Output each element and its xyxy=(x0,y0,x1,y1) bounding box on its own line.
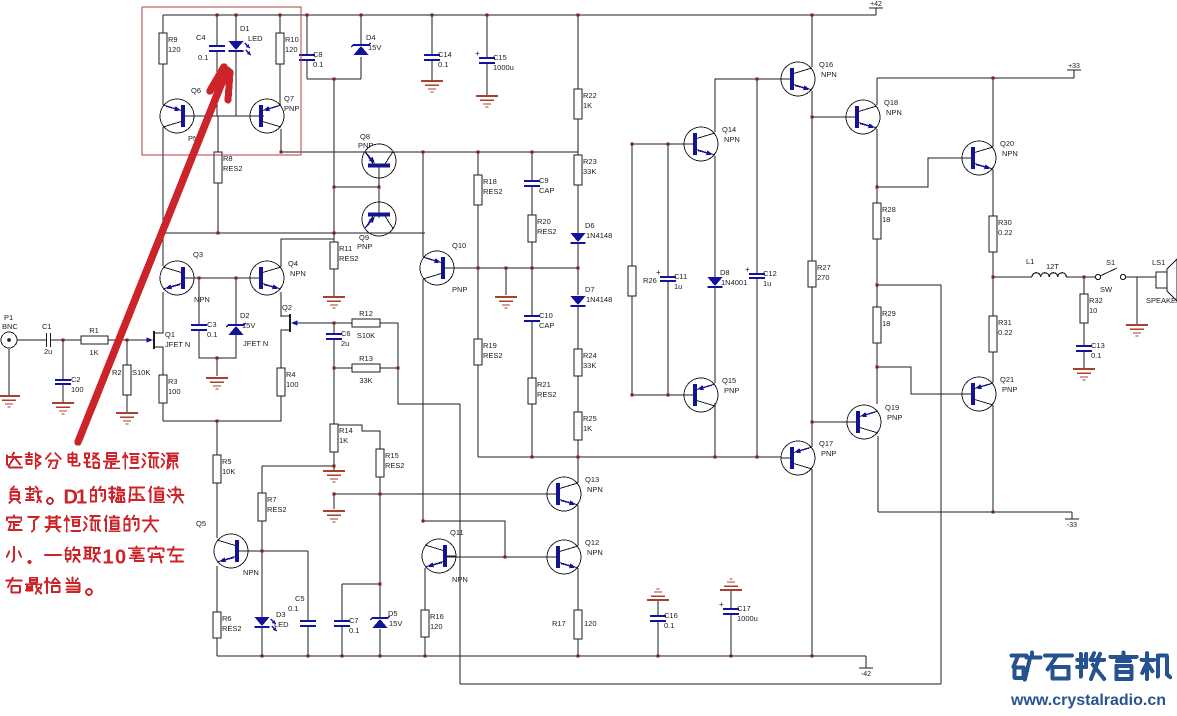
svg-text:NPN: NPN xyxy=(821,70,837,79)
svg-text:2u: 2u xyxy=(44,347,52,356)
wire Q16 emitter column xyxy=(811,91,813,261)
transistor Q17 xyxy=(781,439,836,475)
svg-text:PNP: PNP xyxy=(724,386,739,395)
svg-text:RES2: RES2 xyxy=(483,351,503,360)
wire Q10 emitter up xyxy=(422,152,424,257)
wire C6 top xyxy=(333,323,335,334)
ground R2 xyxy=(116,413,138,424)
svg-text:R22: R22 xyxy=(583,91,597,100)
wire D4 bottom to bus xyxy=(360,57,362,79)
svg-text:C10: C10 xyxy=(539,311,553,320)
svg-text:R5: R5 xyxy=(222,457,232,466)
svg-text:LED: LED xyxy=(274,620,289,629)
junction at (334,323) xyxy=(333,322,336,325)
ground P1 xyxy=(0,396,20,407)
svg-text:D7: D7 xyxy=(585,285,595,294)
wire Q4 collector to R11 xyxy=(281,239,334,267)
wire gnd stem node C3D2 xyxy=(216,358,218,376)
svg-text:-33: -33 xyxy=(1067,522,1077,529)
power -42 xyxy=(859,668,873,678)
wire C16 bottom xyxy=(657,621,659,656)
junction at (812,422) xyxy=(811,421,814,424)
zener D5 xyxy=(370,609,402,628)
ground Q13 base line xyxy=(323,511,345,522)
resistor R23 xyxy=(574,155,597,185)
resistor R5 xyxy=(213,455,235,483)
wire R5 to Q5 collector xyxy=(216,483,218,538)
wire Q16 collector xyxy=(811,15,813,67)
transistor Q18 xyxy=(846,98,902,134)
junction at (262,551) xyxy=(261,550,264,553)
junction at (334,466) xyxy=(333,465,336,468)
wire R16 top to Q11 xyxy=(424,568,426,610)
speaker LS1 xyxy=(1156,272,1167,288)
svg-text:0.22: 0.22 xyxy=(998,228,1013,237)
svg-text:R31: R31 xyxy=(998,318,1012,327)
wire R22-R23 join xyxy=(577,119,579,155)
wire Q2 source to R4 xyxy=(280,331,282,368)
wire y152 to C9/R22 xyxy=(478,151,578,153)
capacitor C3 xyxy=(191,320,217,339)
resistor R21 xyxy=(528,378,557,404)
junction at (308,656) xyxy=(307,655,310,658)
wire Q20 collector xyxy=(992,78,994,147)
svg-text:Q20: Q20 xyxy=(1000,139,1014,148)
svg-text:R23: R23 xyxy=(583,157,597,166)
junction at (236,278) xyxy=(235,277,238,280)
svg-text:15V: 15V xyxy=(389,619,402,628)
wire R3 bottom xyxy=(162,403,164,421)
jfet Q2 xyxy=(281,303,302,337)
capacitor C4 xyxy=(209,46,225,51)
connector P1 BNC xyxy=(1,332,17,348)
capacitor C16 xyxy=(650,611,678,630)
wire R30 bottom to node xyxy=(992,252,994,277)
wire R6 bottom xyxy=(216,638,218,656)
junction at (281,152) xyxy=(280,151,283,154)
svg-text:R18: R18 xyxy=(483,177,497,186)
wire Q18 base line xyxy=(812,116,846,118)
svg-text:100: 100 xyxy=(71,385,84,394)
svg-text:15V: 15V xyxy=(242,321,255,330)
svg-text:-42: -42 xyxy=(861,671,871,678)
resistor R27 xyxy=(808,261,831,287)
wire C2 gnd stem xyxy=(62,384,64,402)
junction at (993,512) xyxy=(992,511,995,514)
svg-text:R30: R30 xyxy=(998,218,1012,227)
svg-text:S10K: S10K xyxy=(357,331,375,340)
svg-text:R4: R4 xyxy=(286,370,296,379)
resistor R28 xyxy=(873,203,896,239)
junction at (236,15) xyxy=(235,14,238,17)
svg-text:Q21: Q21 xyxy=(1000,375,1014,384)
wire output node line xyxy=(993,276,1032,278)
transistor Q10 xyxy=(420,241,467,294)
wire R18 top xyxy=(477,152,479,175)
wire R15 top link xyxy=(334,425,380,449)
svg-text:0.1: 0.1 xyxy=(349,626,359,635)
svg-text:0: 0 xyxy=(115,547,126,569)
wire R14 bottom stem xyxy=(333,452,335,466)
svg-text:1: 1 xyxy=(76,487,87,509)
wire Q15 base line xyxy=(632,394,687,396)
wire Q21 emitter xyxy=(992,405,994,512)
svg-text:PNP: PNP xyxy=(452,285,467,294)
svg-text:1N4001: 1N4001 xyxy=(721,278,747,287)
junction at (812,656) xyxy=(811,655,814,658)
wire Q12 emitter to R17 xyxy=(577,568,579,610)
junction at (334,233) xyxy=(333,232,336,235)
resistor R11 xyxy=(330,242,359,269)
capacitor C5 xyxy=(300,621,316,626)
svg-text:R15: R15 xyxy=(385,451,399,460)
svg-text:LS1: LS1 xyxy=(1152,258,1165,267)
svg-text:R2: R2 xyxy=(112,368,122,377)
wire C2 tap xyxy=(62,340,64,380)
svg-text:100: 100 xyxy=(286,380,299,389)
svg-text:R32: R32 xyxy=(1089,296,1103,305)
svg-text:R6: R6 xyxy=(222,614,232,623)
wire feedback right column xyxy=(940,285,942,684)
wire D3 top xyxy=(261,551,263,617)
svg-text:R13: R13 xyxy=(359,354,373,363)
junction at (668,144) xyxy=(667,143,670,146)
svg-text:Q10: Q10 xyxy=(452,241,466,250)
wire Q17 emitter down xyxy=(811,469,813,656)
resistor R2 xyxy=(123,365,131,395)
resistor R31 xyxy=(989,316,1013,352)
wire y152 right of Q8 xyxy=(394,151,478,153)
red arrow annotation xyxy=(78,70,227,442)
capacitor C13 xyxy=(1076,341,1105,360)
wire C11 bottom xyxy=(667,281,669,395)
svg-text:P1: P1 xyxy=(4,313,13,322)
svg-text:R9: R9 xyxy=(168,35,178,44)
wire C6 to R13 node xyxy=(333,339,335,368)
resistor R12 xyxy=(352,309,380,340)
junction at (307,15) xyxy=(306,14,309,17)
resistor R13 xyxy=(352,354,380,385)
svg-text:C13: C13 xyxy=(1091,341,1105,350)
diode D7 xyxy=(570,285,612,306)
power -33 xyxy=(1065,519,1079,529)
wire R7 bottom xyxy=(261,521,263,551)
wire Q18 collector xyxy=(876,78,878,105)
svg-text:NPN: NPN xyxy=(194,295,210,304)
wire R9 column xyxy=(162,15,164,33)
svg-text:270: 270 xyxy=(817,273,830,282)
wire R22 to rail xyxy=(577,15,579,89)
wire Q18 emitter xyxy=(876,129,878,203)
svg-text:C11: C11 xyxy=(674,272,687,281)
svg-text:1K: 1K xyxy=(583,424,592,433)
junction at (63,340) xyxy=(62,339,65,342)
junction at (423,152) xyxy=(422,151,425,154)
resistor R14 xyxy=(330,424,353,452)
transistor Q7 xyxy=(250,94,299,133)
svg-text:C2: C2 xyxy=(71,375,81,384)
wire feedback bottom xyxy=(460,683,941,685)
wire Q11 collector staple xyxy=(423,521,505,557)
svg-text:R25: R25 xyxy=(583,414,597,423)
junction at (715,457) xyxy=(714,456,717,459)
wire Q20 base staircase xyxy=(877,158,962,187)
svg-text:C6: C6 xyxy=(341,329,351,338)
svg-text:Q9: Q9 xyxy=(359,233,369,242)
wire R7 top link xyxy=(262,465,334,467)
wire +33 rail xyxy=(877,77,1074,79)
svg-text:NPN: NPN xyxy=(290,269,306,278)
transistor Q21 xyxy=(962,375,1017,411)
wire input line xyxy=(17,339,46,341)
svg-text:R26: R26 xyxy=(643,276,657,285)
wire C8 top xyxy=(306,15,308,55)
wire C7 leads xyxy=(341,584,343,621)
svg-text:R28: R28 xyxy=(882,205,896,214)
svg-text:+: + xyxy=(745,265,750,274)
wire R9 to Q6 xyxy=(162,64,164,105)
wire C3 top xyxy=(198,278,200,325)
svg-text:33K: 33K xyxy=(583,167,596,176)
svg-text:D4: D4 xyxy=(366,33,376,42)
svg-text:PNP: PNP xyxy=(358,141,373,150)
svg-text:D3: D3 xyxy=(276,610,286,619)
junction at (632,395) xyxy=(631,394,634,397)
svg-text:S1: S1 xyxy=(1106,258,1115,267)
wire C3/D2 bottom bus xyxy=(199,330,236,358)
svg-text:0.22: 0.22 xyxy=(998,328,1013,337)
wire Q17 collector xyxy=(811,422,813,447)
wire Q5 base to R7/D3 xyxy=(240,550,308,552)
wire R20 bottom xyxy=(531,242,533,268)
svg-text:Q14: Q14 xyxy=(722,125,736,134)
svg-text:C4: C4 xyxy=(196,33,206,42)
ground C14 xyxy=(431,60,433,81)
junction at (993,277) xyxy=(992,276,995,279)
LED D1 xyxy=(228,24,263,55)
wire switch to speaker xyxy=(1126,276,1156,278)
transistor Q3 xyxy=(160,250,210,304)
junction at (578,656) xyxy=(577,655,580,658)
svg-text:1N4148: 1N4148 xyxy=(586,231,612,240)
resistor R18 xyxy=(474,175,503,205)
resistor R24 xyxy=(574,349,597,376)
wire R18 bottom xyxy=(477,205,479,268)
svg-text:R29: R29 xyxy=(882,309,896,318)
junction at (757,79) xyxy=(756,78,759,81)
svg-text:10K: 10K xyxy=(222,467,235,476)
junction at (506,268) xyxy=(505,267,508,270)
svg-text:1u: 1u xyxy=(674,282,682,291)
transistor Q13 xyxy=(547,475,603,511)
wire C12 top xyxy=(756,79,758,274)
wire R19 bottom corner xyxy=(477,365,479,457)
svg-text:0.1: 0.1 xyxy=(207,330,217,339)
wire +33 drop xyxy=(1073,70,1075,78)
junction at (877,187) xyxy=(876,186,879,189)
svg-text:12T: 12T xyxy=(1046,262,1059,271)
wire R21 bottom xyxy=(531,404,533,457)
svg-text:1: 1 xyxy=(103,547,114,569)
svg-text:1K: 1K xyxy=(89,348,98,357)
junction at (877,285) xyxy=(876,284,879,287)
svg-text:R24: R24 xyxy=(583,351,597,360)
junction at (757,457) xyxy=(756,456,759,459)
resistor R29 xyxy=(873,307,896,343)
wire speaker gnd xyxy=(1136,277,1138,324)
svg-text:RES2: RES2 xyxy=(537,227,557,236)
wire D5 top xyxy=(379,584,381,617)
wire Q3 collector up xyxy=(162,233,164,266)
wire Q9 right diag to Q10 xyxy=(393,233,423,252)
svg-text:C16: C16 xyxy=(664,611,678,620)
junction at (380,494) xyxy=(379,493,382,496)
svg-text:10: 10 xyxy=(1089,306,1097,315)
watermark logo text xyxy=(1012,653,1171,680)
svg-text:C12: C12 xyxy=(763,269,777,278)
svg-text:R17: R17 xyxy=(552,619,566,628)
wire R5 tap xyxy=(216,421,218,455)
wire R10 top xyxy=(279,15,281,33)
junction at (812,15) xyxy=(811,14,814,17)
svg-text:Q13: Q13 xyxy=(585,475,599,484)
capacitor C1 xyxy=(42,322,52,356)
resistor R1 xyxy=(81,326,108,357)
svg-text:D8: D8 xyxy=(720,268,730,277)
transistor Q5 xyxy=(196,519,259,577)
svg-text:R14: R14 xyxy=(339,426,353,435)
wire C13 gnd stem xyxy=(1083,351,1085,368)
svg-text:D1: D1 xyxy=(240,24,250,33)
junction at (578,457) xyxy=(577,456,580,459)
wire Q10 collector down xyxy=(422,279,424,521)
svg-text:R1: R1 xyxy=(89,326,99,335)
svg-text:NPN: NPN xyxy=(243,568,259,577)
junction at (877,367) xyxy=(876,366,879,369)
svg-text:SW: SW xyxy=(1100,285,1113,294)
svg-text:0.1: 0.1 xyxy=(288,604,298,613)
junction at (532,268) xyxy=(531,267,534,270)
wire R2 gnd stem xyxy=(126,395,128,412)
resistor R4 xyxy=(277,368,299,396)
svg-text:0.1: 0.1 xyxy=(664,621,674,630)
wire -33 line xyxy=(878,511,1072,513)
junction at (334,79) xyxy=(333,78,336,81)
inverted ground C16 xyxy=(647,589,669,600)
wire R32 to C13 xyxy=(1083,323,1085,346)
junction at (1084,277) xyxy=(1083,276,1086,279)
wire R27 bottom xyxy=(811,287,813,422)
wire Q4 emitter to Q2 xyxy=(280,292,282,317)
svg-text:C9: C9 xyxy=(539,176,549,185)
svg-text:L1: L1 xyxy=(1026,257,1034,266)
svg-text:R10: R10 xyxy=(285,35,299,44)
svg-text:1000u: 1000u xyxy=(737,614,758,623)
svg-text:R11: R11 xyxy=(339,244,352,253)
zener D2 xyxy=(226,311,255,335)
svg-text:RES2: RES2 xyxy=(267,505,287,514)
svg-text:S10K: S10K xyxy=(132,368,150,377)
svg-text:2u: 2u xyxy=(341,339,349,348)
svg-text:Q1: Q1 xyxy=(165,330,175,339)
capacitor C10 xyxy=(524,311,554,330)
svg-text:PNP: PNP xyxy=(887,413,902,422)
svg-text:PNP: PNP xyxy=(357,242,372,251)
svg-text:NPN: NPN xyxy=(724,135,740,144)
wire top +42 rail xyxy=(163,14,876,16)
svg-text:+: + xyxy=(656,268,661,277)
svg-text:R3: R3 xyxy=(168,377,178,386)
transistor Q19 xyxy=(847,403,902,439)
wire D6 to node xyxy=(577,244,579,268)
capacitor C8 xyxy=(299,50,323,69)
junction at (262,656) xyxy=(261,655,264,658)
wire C11 top xyxy=(667,144,669,277)
svg-text:+42: +42 xyxy=(870,1,882,8)
wire R30R31 node xyxy=(992,277,994,316)
resistor R3 xyxy=(159,375,181,403)
wire R25 bottom xyxy=(577,440,579,457)
wire R32 tap xyxy=(1083,277,1085,294)
svg-text:LED: LED xyxy=(248,34,263,43)
capacitor C11 xyxy=(656,268,687,291)
transistor Q15 xyxy=(684,376,739,412)
wire Q13 collector xyxy=(577,457,579,483)
junction at (127,340) xyxy=(126,339,129,342)
wire R7 tap xyxy=(261,466,263,493)
wire R24 to R25 xyxy=(577,376,579,412)
wire C8/D4 bottom bus xyxy=(307,78,361,80)
transistor Q8 xyxy=(358,132,396,187)
svg-text:C1: C1 xyxy=(42,322,52,331)
wire R19 top xyxy=(477,268,479,339)
wire Q6 collector down xyxy=(162,127,164,233)
resistor R7 xyxy=(258,493,287,521)
wire Q11 base line xyxy=(447,556,548,558)
svg-text:R21: R21 xyxy=(537,380,551,389)
wire Q21 collector xyxy=(992,352,994,383)
resistor R26 xyxy=(628,266,636,296)
wire C5 bottom xyxy=(307,626,309,656)
junction at (487,15) xyxy=(486,14,489,17)
wire -33 drop xyxy=(1071,512,1073,519)
wire Q14 emitter to D8 xyxy=(714,156,716,277)
svg-text:1K: 1K xyxy=(339,436,348,445)
svg-text:JFET N: JFET N xyxy=(165,340,190,349)
wire R28 bottom xyxy=(876,239,878,307)
svg-text:C17: C17 xyxy=(737,604,751,613)
svg-text:Q2: Q2 xyxy=(282,303,292,312)
junction at (217,15) xyxy=(216,14,219,17)
wire R28R29 to fb xyxy=(877,284,941,286)
wire Q7 collector to y152 xyxy=(281,129,421,152)
wire C7 bottom xyxy=(341,626,343,656)
svg-text:www.crystalradio.cn: www.crystalradio.cn xyxy=(1010,692,1166,709)
red annotation text line: 负载。D1的稳压值决 xyxy=(9,486,183,508)
ground C13 xyxy=(1073,369,1095,380)
wire R15 bottom xyxy=(379,477,381,584)
wire C10 to R21 xyxy=(531,321,533,378)
ground C2 xyxy=(52,403,74,414)
wire R13 left lead xyxy=(334,367,352,369)
svg-text:Q15: Q15 xyxy=(722,376,736,385)
junction at (217,421) xyxy=(216,420,219,423)
svg-text:0.1: 0.1 xyxy=(313,60,323,69)
svg-text:D2: D2 xyxy=(240,311,250,320)
svg-text:RES2: RES2 xyxy=(483,187,503,196)
red annotation text line: 小，一般取10毫安左 xyxy=(7,546,184,568)
svg-text:BNC: BNC xyxy=(2,322,18,331)
